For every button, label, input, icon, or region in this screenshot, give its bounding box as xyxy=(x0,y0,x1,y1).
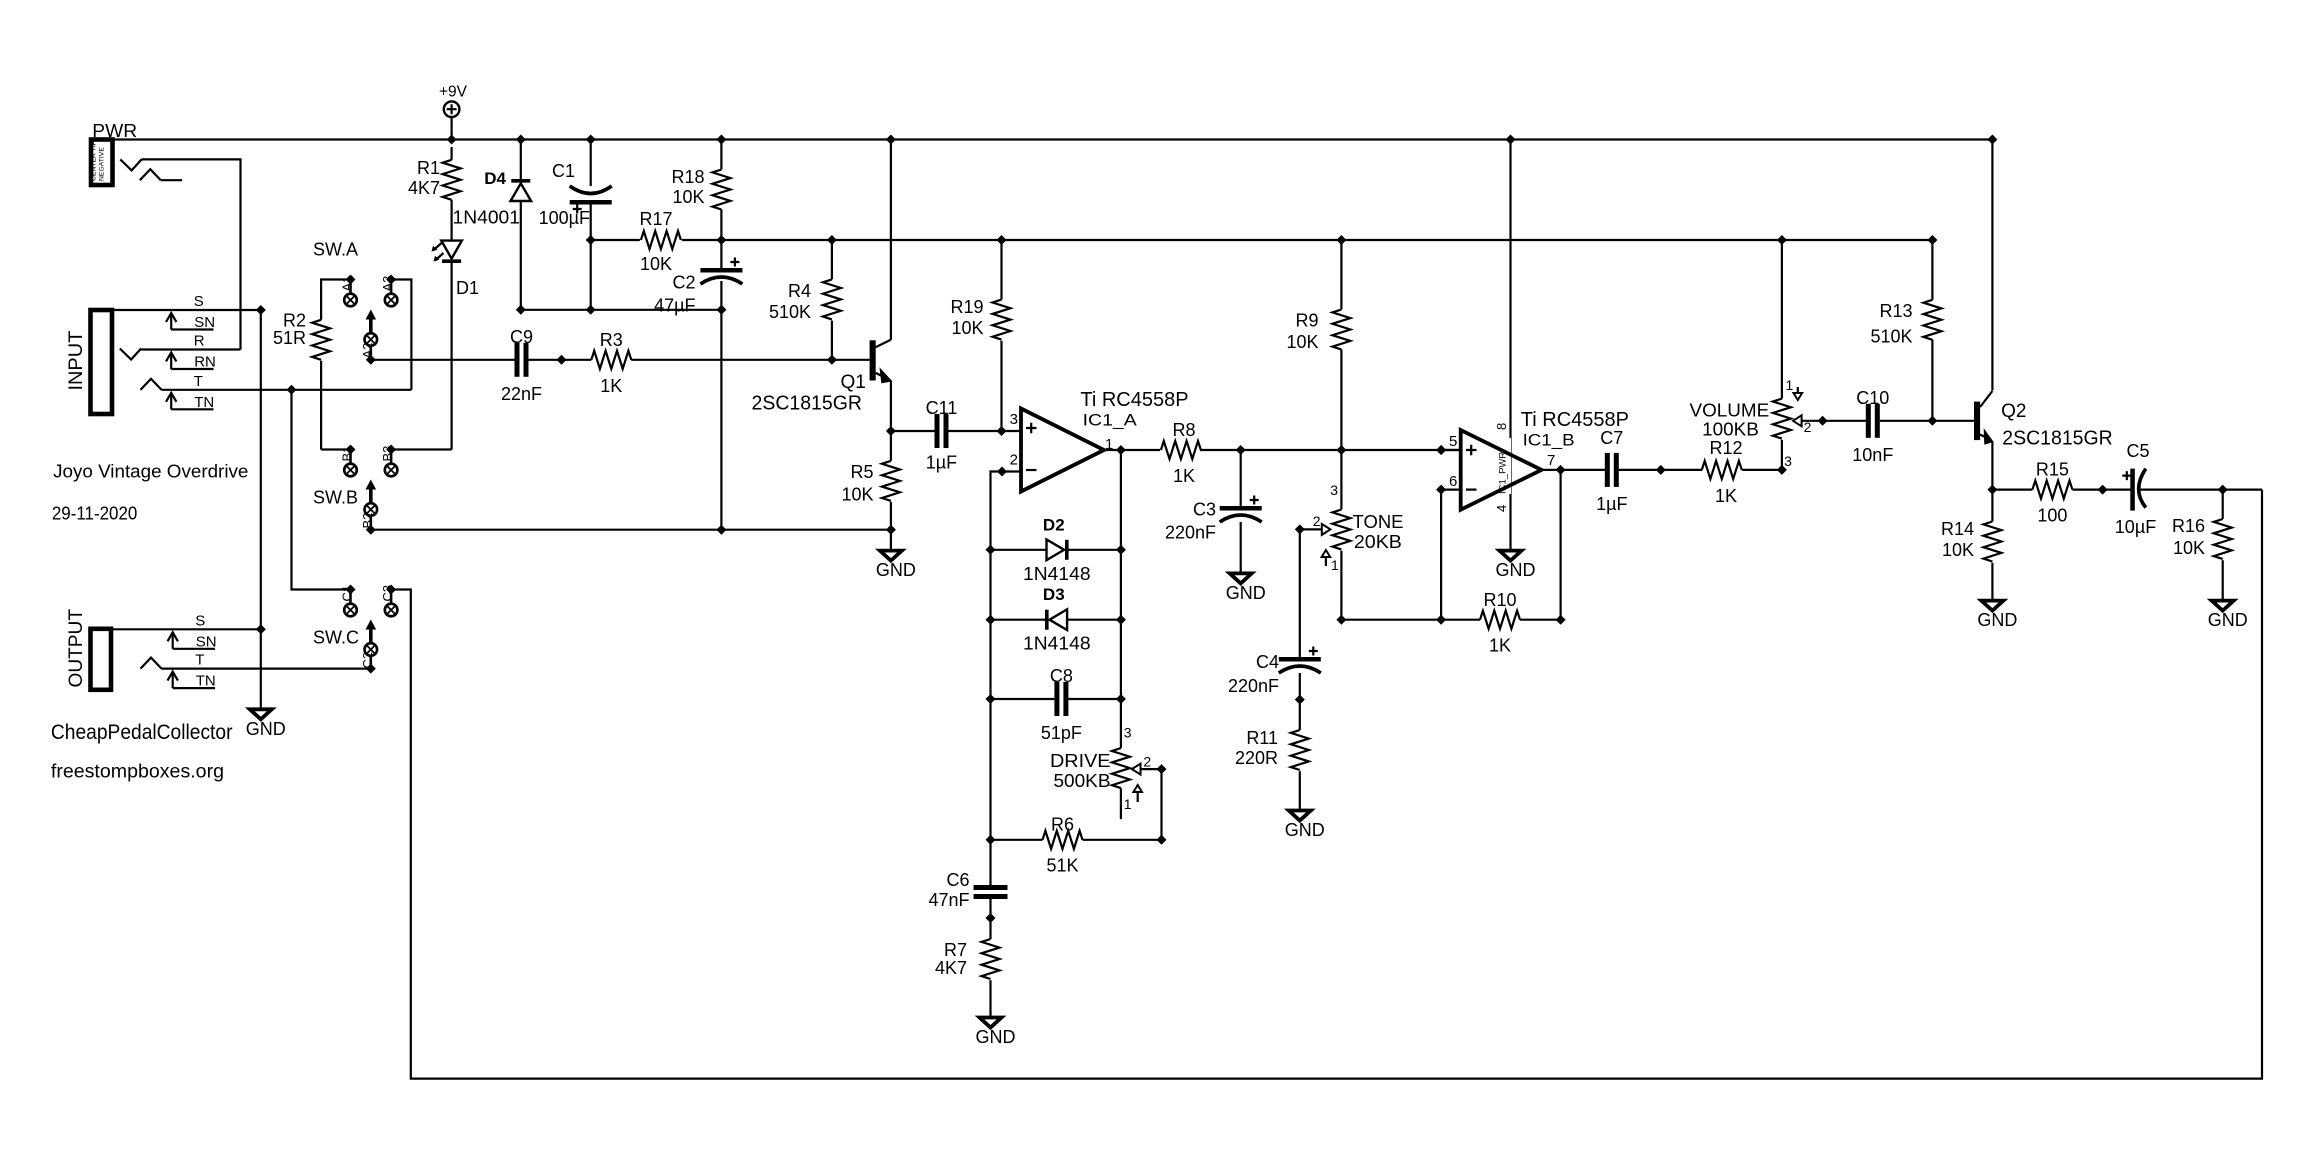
junction xyxy=(716,305,726,315)
svg-text:2: 2 xyxy=(1010,452,1018,469)
label input S xyxy=(166,293,215,331)
svg-text:1K: 1K xyxy=(1489,636,1511,656)
resistor R1 xyxy=(408,158,461,200)
label output T xyxy=(168,652,216,690)
wire DRIVE wiper xyxy=(1141,768,1162,770)
svg-text:Ti RC4558P: Ti RC4558P xyxy=(1080,389,1188,411)
wire pin5 stub xyxy=(1441,449,1461,451)
junction xyxy=(516,135,526,145)
wire xyxy=(321,448,350,450)
svg-text:R12: R12 xyxy=(1709,438,1742,458)
junction xyxy=(256,624,266,634)
wire xyxy=(1067,619,1121,621)
svg-text:A2: A2 xyxy=(360,343,375,359)
svg-text:510K: 510K xyxy=(769,302,811,322)
svg-text:4K7: 4K7 xyxy=(935,958,967,978)
potentiometer DRIVE xyxy=(1050,725,1151,820)
svg-text:R10: R10 xyxy=(1483,590,1516,610)
junction xyxy=(986,913,996,923)
junction xyxy=(346,585,356,595)
wire xyxy=(989,918,991,939)
svg-text:T: T xyxy=(194,373,203,390)
junction xyxy=(447,135,457,145)
junction xyxy=(386,585,396,595)
junction xyxy=(386,275,396,285)
resistor R7 xyxy=(935,939,1000,979)
junction xyxy=(586,235,596,245)
wire xyxy=(1340,350,1342,451)
wire IC1 power xyxy=(1509,140,1511,550)
wire xyxy=(590,140,592,187)
wire Q2 collector xyxy=(1991,140,1993,391)
wire xyxy=(590,205,592,310)
svg-text:SN: SN xyxy=(194,314,215,331)
wire feedback left column xyxy=(991,472,1003,840)
svg-text:2SC1815GR: 2SC1815GR xyxy=(2002,427,2112,450)
wire xyxy=(1619,469,1702,471)
wire output sleeve xyxy=(111,628,261,630)
junction xyxy=(256,305,266,315)
resistor R18 xyxy=(671,167,730,209)
junction xyxy=(557,355,567,365)
svg-text:C9: C9 xyxy=(510,327,533,347)
svg-text:S: S xyxy=(194,293,204,310)
junction xyxy=(287,385,297,395)
resistor R5 xyxy=(841,461,899,505)
node +9V supply xyxy=(439,84,468,117)
junction xyxy=(1436,445,1446,455)
junction xyxy=(1927,235,1937,245)
potentiometer TONE xyxy=(1313,482,1404,573)
junction xyxy=(986,545,996,555)
wire to TONE xyxy=(1340,450,1342,510)
svg-text:R13: R13 xyxy=(1879,301,1912,321)
svg-text:1K: 1K xyxy=(1715,486,1737,506)
svg-text:C6: C6 xyxy=(946,870,969,890)
junction xyxy=(1656,465,1666,475)
wire Q1 emitter xyxy=(890,381,892,431)
wire A2 to C9 xyxy=(371,359,515,361)
resistor R15 xyxy=(2032,460,2072,526)
wire xyxy=(529,359,592,361)
svg-text:R1: R1 xyxy=(417,158,440,178)
junction xyxy=(386,445,396,455)
svg-text:10K: 10K xyxy=(640,254,672,274)
svg-text:3: 3 xyxy=(1124,725,1132,741)
svg-text:freestompboxes.org: freestompboxes.org xyxy=(51,761,224,783)
wire xyxy=(890,530,892,549)
wire xyxy=(890,431,892,461)
junction xyxy=(1506,135,1516,145)
junction xyxy=(1336,445,1346,455)
junction xyxy=(516,305,526,315)
svg-text:1N4148: 1N4148 xyxy=(1023,634,1091,654)
wire feedback right column xyxy=(1120,450,1122,748)
resistor R13 xyxy=(1870,300,1941,347)
wire xyxy=(991,549,1047,551)
capacitor C6 xyxy=(928,870,1007,910)
junction xyxy=(2098,485,2108,495)
svg-text:100KB: 100KB xyxy=(1702,420,1759,440)
wire input sleeve xyxy=(112,309,261,311)
svg-text:47µF: 47µF xyxy=(654,296,695,316)
svg-text:10K: 10K xyxy=(1942,540,1974,560)
junction xyxy=(1436,615,1446,625)
junction xyxy=(1987,135,1997,145)
wire pin6 stub xyxy=(1441,489,1461,491)
svg-text:GND: GND xyxy=(246,719,286,739)
svg-text:GND: GND xyxy=(1285,820,1325,840)
wire Q1 collector xyxy=(890,140,892,340)
svg-text:C2: C2 xyxy=(672,273,695,293)
label output S xyxy=(168,612,217,650)
svg-text:C4: C4 xyxy=(1256,652,1279,672)
wire xyxy=(720,140,722,170)
wire A3 to tip net xyxy=(391,280,411,390)
junction xyxy=(1927,416,1937,426)
label input T xyxy=(166,373,214,411)
wire xyxy=(1931,340,1933,421)
svg-text:51R: 51R xyxy=(273,328,306,348)
svg-text:GND: GND xyxy=(976,1027,1016,1047)
svg-text:GND: GND xyxy=(2208,610,2248,630)
svg-text:3: 3 xyxy=(1330,482,1338,498)
svg-text:TN: TN xyxy=(194,394,214,411)
svg-text:C7: C7 xyxy=(1600,428,1623,448)
svg-text:10µF: 10µF xyxy=(2115,517,2156,537)
junction xyxy=(1556,615,1566,625)
svg-text:SN: SN xyxy=(196,633,217,650)
ground xyxy=(976,1018,1016,1048)
junction xyxy=(886,135,896,145)
svg-text:C5: C5 xyxy=(2126,441,2149,461)
wire xyxy=(1823,420,1867,422)
svg-text:INPUT: INPUT xyxy=(66,330,87,390)
svg-text:GND: GND xyxy=(876,560,916,580)
svg-text:T: T xyxy=(195,652,204,669)
svg-text:7: 7 xyxy=(1547,452,1555,469)
capacitor C5 xyxy=(2115,441,2156,537)
svg-text:1K: 1K xyxy=(600,376,622,396)
svg-text:IC1_B: IC1_B xyxy=(1523,430,1575,449)
svg-text:C10: C10 xyxy=(1856,388,1889,408)
ground xyxy=(876,551,916,581)
svg-text:20KB: 20KB xyxy=(1354,532,1402,552)
svg-text:10nF: 10nF xyxy=(1852,445,1893,465)
wire Q2 emitter xyxy=(1991,442,1993,490)
svg-text:22nF: 22nF xyxy=(501,384,542,404)
svg-text:D2: D2 xyxy=(1043,515,1065,534)
capacitor C9 xyxy=(501,327,542,404)
wire bias to R13 xyxy=(1931,240,1933,300)
wire xyxy=(1991,490,1993,522)
connector INPUT xyxy=(91,310,113,414)
wire xyxy=(521,309,722,311)
svg-text:D1: D1 xyxy=(456,278,479,298)
junction xyxy=(716,235,726,245)
junction xyxy=(366,525,376,535)
svg-text:SW.B: SW.B xyxy=(313,488,358,508)
svg-text:OUTPUT: OUTPUT xyxy=(66,609,87,688)
wire +9V rail xyxy=(113,138,1993,140)
wire input tip contact xyxy=(141,379,412,390)
svg-text:NEGATIVE: NEGATIVE xyxy=(99,147,106,181)
svg-text:CheapPedalCollector: CheapPedalCollector xyxy=(51,721,233,744)
capacitor C2 xyxy=(700,258,742,285)
wire B3 to D1 xyxy=(391,448,452,450)
junction xyxy=(827,235,837,245)
wire output loop xyxy=(391,490,2262,1079)
svg-text:R7: R7 xyxy=(944,940,967,960)
junction xyxy=(1157,835,1167,845)
wire pin2 stub xyxy=(1002,470,1021,472)
svg-text:C3: C3 xyxy=(1193,500,1216,520)
junction xyxy=(586,305,596,315)
wire PWR tip contact xyxy=(120,159,240,349)
wire xyxy=(451,200,453,241)
svg-text:220R: 220R xyxy=(1235,748,1278,768)
junction xyxy=(1295,695,1305,705)
diode D2 xyxy=(1023,515,1091,584)
label input R xyxy=(166,333,216,371)
wire xyxy=(991,619,1047,621)
svg-text:10K: 10K xyxy=(1286,332,1318,352)
transistor Q1 xyxy=(752,340,891,415)
svg-text:C11: C11 xyxy=(926,398,958,418)
junction xyxy=(1336,235,1346,245)
resistor R2 xyxy=(273,311,330,360)
wire xyxy=(520,201,522,310)
svg-text:TN: TN xyxy=(196,673,216,690)
wire TONE wiper xyxy=(1300,528,1322,530)
wire xyxy=(949,430,1022,432)
switch SW.A xyxy=(340,276,398,360)
resistor R3 xyxy=(591,330,631,396)
junction xyxy=(997,467,1007,477)
svg-text:TONE: TONE xyxy=(1353,512,1404,532)
svg-text:SW.C: SW.C xyxy=(313,628,359,648)
svg-text:4K7: 4K7 xyxy=(408,178,440,198)
resistor R19 xyxy=(950,297,1010,340)
junction xyxy=(1116,615,1126,625)
wire PWR sleeve contact xyxy=(140,169,182,180)
resistor R4 xyxy=(769,279,841,322)
svg-text:500KB: 500KB xyxy=(1054,771,1111,791)
switch SW.C xyxy=(340,585,398,670)
svg-text:29-11-2020: 29-11-2020 xyxy=(52,504,137,524)
svg-text:GND: GND xyxy=(1496,560,1536,580)
resistor R16 xyxy=(2172,516,2232,559)
svg-text:DRIVE: DRIVE xyxy=(1050,751,1111,771)
capacitor C8 xyxy=(1041,666,1082,743)
wire xyxy=(451,147,453,160)
resistor R11 xyxy=(1235,728,1309,770)
svg-text:1: 1 xyxy=(1786,377,1794,393)
wire xyxy=(451,263,453,450)
wire xyxy=(1000,341,1002,431)
wire B2 to ground net xyxy=(371,529,891,531)
junction xyxy=(1556,465,1566,475)
wire xyxy=(520,140,522,181)
svg-text:R11: R11 xyxy=(1246,728,1278,748)
capacitor C7 xyxy=(1596,428,1627,514)
ground xyxy=(1285,811,1325,841)
svg-text:GND: GND xyxy=(1977,610,2017,630)
capacitor C4 xyxy=(1228,647,1321,697)
capacitor C10 xyxy=(1852,388,1893,465)
wire xyxy=(831,240,833,279)
resistor R12 xyxy=(1702,438,1743,506)
junction xyxy=(1295,524,1305,534)
junction xyxy=(827,355,837,365)
wire xyxy=(989,899,991,918)
svg-text:C8: C8 xyxy=(1050,666,1073,686)
wire xyxy=(991,698,1055,700)
svg-text:6: 6 xyxy=(1449,473,1457,490)
svg-text:510K: 510K xyxy=(1870,327,1912,347)
resistor R10 xyxy=(1480,590,1520,656)
connector OUTPUT xyxy=(91,629,112,690)
svg-text:VOLUME: VOLUME xyxy=(1690,400,1770,420)
wire A1 to R2 xyxy=(321,280,350,320)
svg-text:RN: RN xyxy=(194,354,216,371)
svg-text:1: 1 xyxy=(1124,796,1132,812)
svg-text:1K: 1K xyxy=(1173,466,1195,486)
wire xyxy=(831,321,833,360)
svg-text:220nF: 220nF xyxy=(1228,676,1279,696)
wire xyxy=(1121,449,1160,451)
svg-text:47nF: 47nF xyxy=(928,890,969,910)
wire VOLUME wiper xyxy=(1802,420,1823,422)
wire xyxy=(1299,771,1301,809)
junction xyxy=(997,426,1007,436)
wire xyxy=(720,281,722,530)
svg-text:PWR: PWR xyxy=(92,121,137,141)
capacitor C3 xyxy=(1165,496,1262,543)
svg-text:R6: R6 xyxy=(1051,815,1074,835)
switch SW.B xyxy=(340,446,398,530)
resistor R9 xyxy=(1286,310,1350,353)
wire xyxy=(1067,549,1121,551)
svg-text:8: 8 xyxy=(1494,423,1509,430)
junction xyxy=(1236,445,1246,455)
svg-text:1N4001: 1N4001 xyxy=(453,208,521,228)
wire xyxy=(451,117,453,140)
svg-text:R8: R8 xyxy=(1172,420,1195,440)
svg-text:R15: R15 xyxy=(2036,460,2069,480)
wire xyxy=(1991,563,1993,599)
junction xyxy=(886,525,896,535)
wire xyxy=(2140,489,2262,491)
wire xyxy=(631,359,869,361)
wire bias rail xyxy=(682,239,1933,241)
wire xyxy=(991,839,1043,841)
svg-text:R3: R3 xyxy=(600,330,623,350)
resistor R6 xyxy=(1043,815,1083,876)
junction xyxy=(997,235,1007,245)
wire output tip contact xyxy=(141,658,371,669)
svg-text:IC1_A: IC1_A xyxy=(1083,410,1138,429)
ground xyxy=(246,709,286,739)
wire xyxy=(1240,522,1242,572)
junction xyxy=(1436,485,1446,495)
junction xyxy=(716,525,726,535)
svg-text:B2: B2 xyxy=(360,513,375,529)
wire xyxy=(1299,673,1301,700)
wire R2 to B1 xyxy=(320,361,322,450)
svg-text:D4: D4 xyxy=(484,169,506,188)
junction xyxy=(886,426,896,436)
junction xyxy=(1777,235,1787,245)
wire xyxy=(1340,240,1342,310)
svg-text:2: 2 xyxy=(1143,754,1151,770)
wire xyxy=(1561,469,1605,471)
label IC1_PWR net xyxy=(1498,438,1512,494)
junction xyxy=(346,445,356,455)
svg-text:220nF: 220nF xyxy=(1165,523,1216,543)
wire xyxy=(1083,839,1162,841)
wire xyxy=(1000,240,1002,300)
svg-text:10K: 10K xyxy=(841,485,873,505)
wire R8 to IC1_B pin5 xyxy=(1200,449,1461,451)
svg-text:2: 2 xyxy=(1313,513,1321,529)
connector PWR xyxy=(91,121,138,185)
svg-text:R17: R17 xyxy=(639,209,672,229)
junction xyxy=(716,135,726,145)
svg-text:SW.A: SW.A xyxy=(313,240,358,260)
wire R10 row xyxy=(1341,619,1480,621)
junction xyxy=(586,135,596,145)
svg-text:10K: 10K xyxy=(951,318,983,338)
junction xyxy=(1436,445,1446,455)
op-amp IC1_A xyxy=(1010,389,1189,492)
wire to C6 xyxy=(989,840,991,885)
wire pin1 output xyxy=(1104,449,1121,451)
svg-text:4: 4 xyxy=(1494,505,1509,512)
junction xyxy=(1116,545,1126,555)
junction xyxy=(346,275,356,285)
svg-text:S: S xyxy=(195,612,205,629)
svg-text:R4: R4 xyxy=(788,281,811,301)
junction xyxy=(2218,485,2228,495)
wire xyxy=(1992,489,2032,491)
svg-text:51pF: 51pF xyxy=(1041,723,1082,743)
wire to C3 xyxy=(1240,450,1242,506)
svg-text:51K: 51K xyxy=(1046,856,1078,876)
wire sleeve ground column xyxy=(260,310,262,708)
ground xyxy=(2208,601,2248,631)
resistor R14 xyxy=(1941,519,2001,562)
wire xyxy=(1340,551,1342,620)
resistor R17 xyxy=(639,209,680,274)
wire xyxy=(890,502,892,530)
wire tip net to C1 pad xyxy=(292,390,351,590)
svg-text:R18: R18 xyxy=(671,167,704,187)
svg-text:1µF: 1µF xyxy=(1596,494,1627,514)
transistor Q2 xyxy=(1974,391,2113,450)
svg-text:Joyo Vintage Overdrive: Joyo Vintage Overdrive xyxy=(53,462,248,482)
junction xyxy=(986,835,996,845)
svg-text:C1: C1 xyxy=(552,161,575,181)
wire input ring contact xyxy=(120,349,241,360)
diode D3 xyxy=(1023,585,1091,654)
svg-text:Q2: Q2 xyxy=(2001,401,2026,422)
svg-text:3: 3 xyxy=(1010,411,1018,428)
wire pin6 to R10 xyxy=(1440,490,1442,620)
wire xyxy=(720,240,722,268)
svg-text:100: 100 xyxy=(2037,506,2067,526)
wire xyxy=(1160,769,1162,840)
